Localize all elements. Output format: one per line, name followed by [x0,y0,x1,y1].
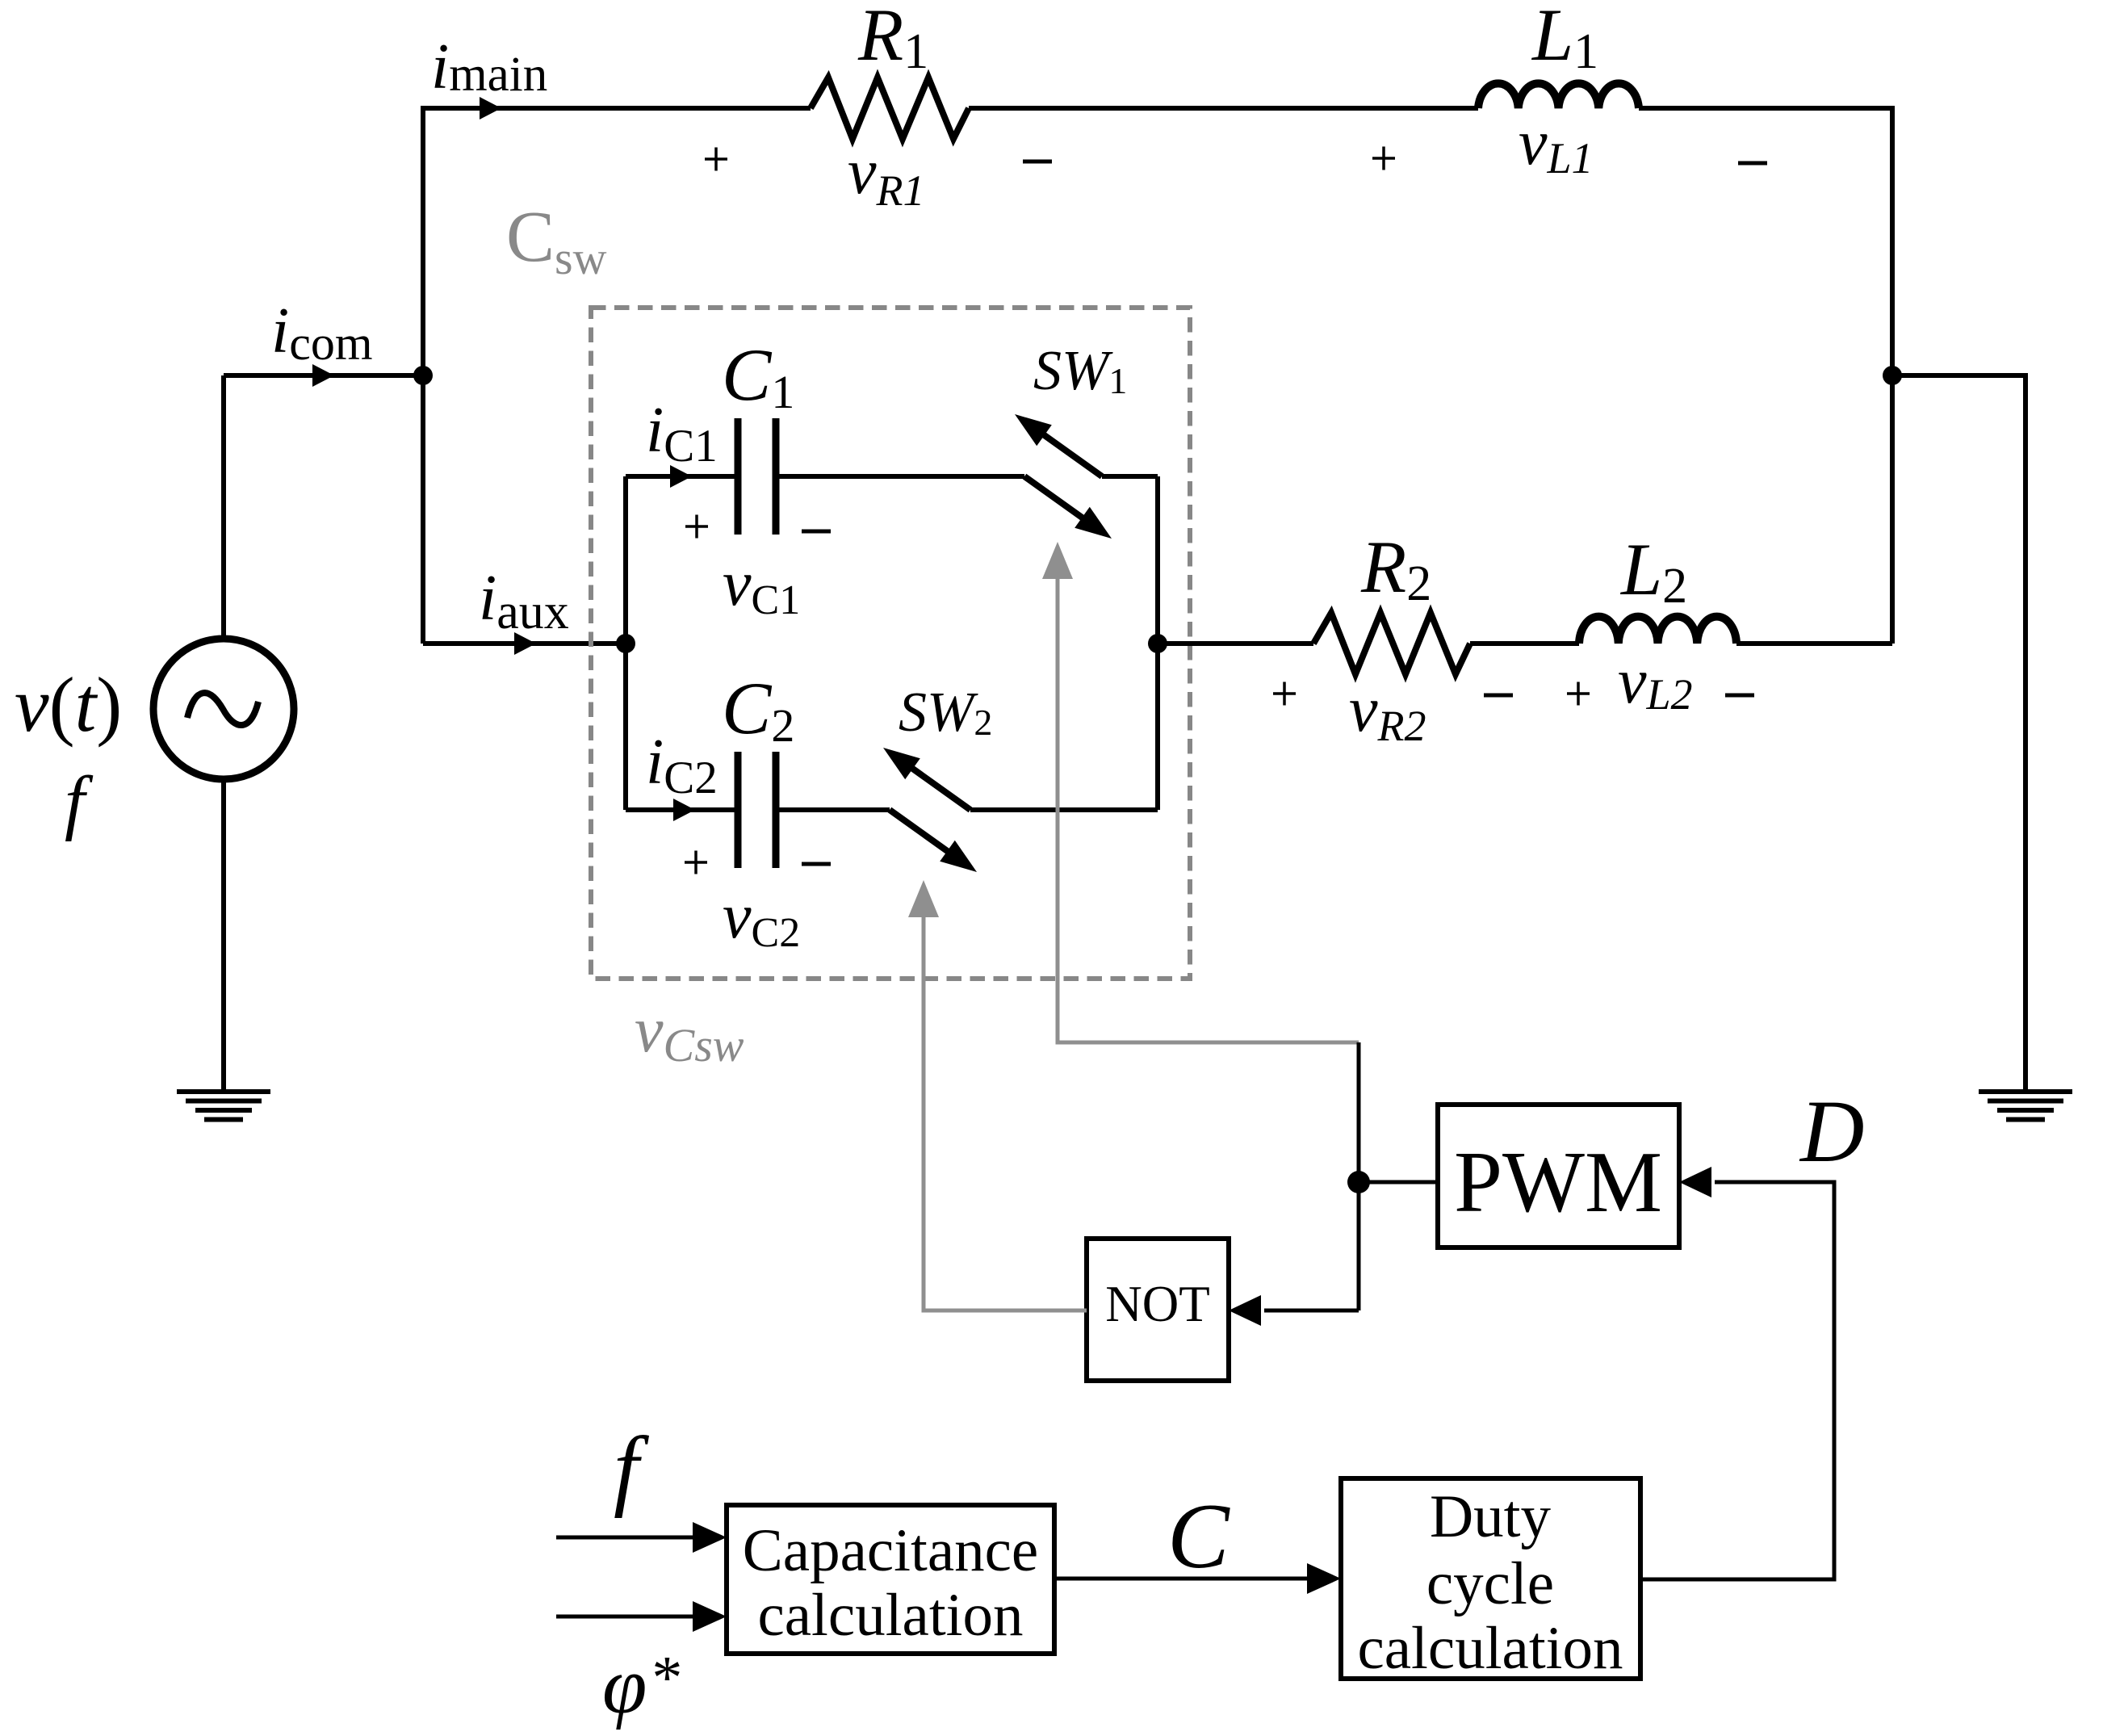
box NOT [1087,1239,1229,1381]
wire SW2 right [970,807,1158,812]
wire C between blocks [1054,1577,1310,1581]
wire L2 to right vertical [1736,641,1892,646]
wire source bottom stub [221,778,226,1092]
source V1 sine [187,693,258,725]
wire C1 right [779,474,1024,479]
svg-text:calculation: calculation [757,1582,1023,1649]
box PWM [1438,1105,1679,1247]
svg-text:PWM: PWM [1454,1134,1662,1231]
switch SW1 [1015,414,1112,539]
arrow gray SW1 control [1042,542,1073,579]
resistor R2 [1313,613,1470,674]
wire top right corner down [1639,108,1892,644]
svg-text:Duty: Duty [1430,1483,1552,1550]
wire gray SW2 control [924,914,1087,1310]
wire capacitor-branch vertical [623,476,628,810]
node right junction dot [1883,366,1902,385]
label vR1 plus [705,148,727,171]
arrow iC2 [673,799,695,821]
label vR2 plus [1273,682,1296,706]
svg-text:D: D [1799,1082,1864,1180]
label vL2 minus [1725,694,1754,698]
label vC1 minus [802,530,831,534]
svg-text:NOT: NOT [1105,1276,1209,1332]
wire icom [224,373,423,378]
label vC2 plus [685,851,707,874]
wire f input [556,1536,696,1540]
wire PWM input left [1359,1180,1438,1185]
arrow icom [312,364,334,387]
svg-text:v(t): v(t) [15,661,122,748]
wire phi input [556,1615,696,1619]
svg-text:cycle: cycle [1426,1550,1554,1617]
box Csw dashed [591,308,1190,979]
arrow C into Duty [1307,1563,1341,1594]
ground left [177,1092,270,1120]
switch SW2 [883,748,977,872]
wire top main loop [423,108,811,644]
capacitor C2 [738,752,776,868]
wire SW1 right [1102,474,1158,479]
node junction iaux dot [616,634,635,653]
node SW junction dot [1148,634,1167,653]
wire C1 left [626,474,735,479]
svg-text:C: C [1167,1485,1230,1587]
wire C2 right [779,807,890,812]
arrow iC1 [670,465,692,488]
box Duty cycle calculation [1341,1478,1640,1679]
node junction icom dot [413,366,433,385]
label vC1 plus [685,515,708,539]
arrow gray SW2 control [908,880,939,917]
label vR2 minus [1484,694,1513,698]
inductor L1 [1478,83,1639,108]
label vL2 plus [1567,682,1590,706]
wire gray SW1 control [1058,576,1359,1042]
wire between R2 L2 [1470,641,1579,646]
svg-text:Capacitance: Capacitance [743,1517,1038,1584]
ground right [1979,1092,2072,1120]
label vL1 minus [1738,161,1767,166]
svg-text:calculation: calculation [1357,1615,1623,1682]
wire D [1640,1182,1834,1579]
arrow imain [480,97,501,120]
wire NOT input [1264,1309,1359,1313]
node PWM dot [1347,1171,1370,1193]
wire R2 L2 line [1158,641,1313,646]
arrow iaux [514,632,536,655]
wire source top stub [221,375,226,639]
arrow PWM input D [1679,1167,1711,1197]
wire iaux [423,641,626,646]
label vC2 minus [802,862,831,866]
box Capacitance calculation [727,1505,1054,1654]
wire top between R1 and L1 [969,106,1478,111]
arrow phi input [693,1601,727,1632]
arrow f input [693,1522,727,1553]
capacitor C1 [738,418,776,535]
wire inner right vertical [1155,476,1160,810]
inductor L2 [1579,617,1736,644]
wire C2 left [626,807,735,812]
wire right ground stub [1892,375,2025,1090]
label vR1 minus [1023,160,1052,164]
label vL1 plus [1372,147,1395,170]
arrow NOT input [1229,1295,1261,1326]
source V1 circle [153,639,294,779]
wire black PWM node vertical [1357,1042,1361,1310]
resistor R1 [811,78,969,139]
